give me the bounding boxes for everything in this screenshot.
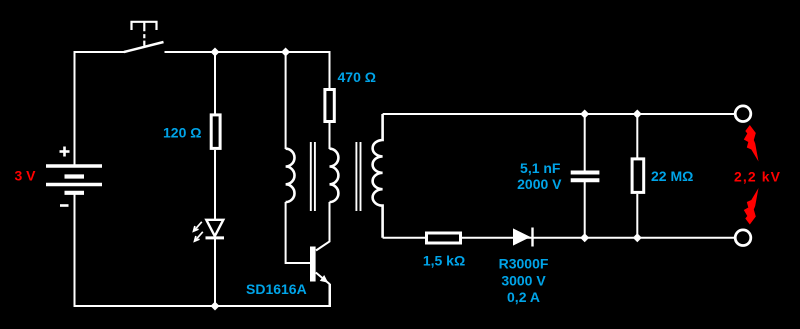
pushbutton plunger dashed link: [143, 22, 145, 47]
svg-text:3 V: 3 V: [14, 167, 36, 183]
transformer winding L2 primary: [330, 149, 339, 202]
wire 22M bottom lead: [636, 194, 638, 238]
spark bolt top: [744, 125, 759, 162]
wire top node to resistor R_120: [214, 52, 216, 114]
wire top node to winding L1: [285, 52, 287, 149]
svg-text:120 Ω: 120 Ω: [163, 124, 201, 140]
wire switch to corner above 470: [165, 52, 330, 89]
battery plus sign: [60, 147, 70, 157]
svg-text:3000 V: 3000 V: [501, 272, 546, 288]
node junction top at 120 ohm branch: [211, 48, 220, 57]
transformer winding L3 secondary: [373, 114, 383, 238]
wire battery plus to switch: [75, 52, 126, 166]
transistor Q1 emitter arrow: [320, 275, 328, 283]
node junction top at coil1 branch: [281, 48, 290, 57]
svg-text:2,2 kV: 2,2 kV: [734, 169, 781, 185]
svg-text:22 MΩ: 22 MΩ: [651, 168, 693, 184]
wire 22M top lead: [636, 114, 638, 158]
diode D2 cathode bar: [531, 228, 533, 247]
wire L2 to collector: [316, 202, 330, 251]
wire secondary bottom rail: [383, 237, 735, 239]
terminal output bottom: [735, 230, 751, 246]
svg-text:SD1616A: SD1616A: [246, 281, 307, 297]
wire LED to bottom rail: [214, 238, 216, 306]
pushbutton actuator bracket: [132, 22, 157, 30]
svg-text:470 Ω: 470 Ω: [338, 69, 376, 85]
resistor 1,5 kohm: [427, 233, 461, 243]
resistor 120 ohm: [211, 115, 220, 148]
wire secondary top rail: [383, 113, 735, 115]
resistor 470 ohm: [325, 90, 334, 122]
wire cap top lead: [584, 114, 586, 171]
wire L1 to base: [286, 202, 310, 263]
diode D2 triangle: [513, 228, 531, 245]
terminal output top: [735, 106, 751, 122]
transformer core 1: [311, 142, 315, 211]
node bottom at capacitor branch: [580, 233, 589, 242]
node junction bottom at LED branch: [211, 302, 220, 311]
svg-text:2000 V: 2000 V: [517, 176, 562, 192]
transformer winding L1 feedback: [286, 149, 295, 202]
capacitor C1 plates: [571, 173, 600, 181]
transistor Q1 emitter: [316, 273, 330, 307]
LED D1 cathode bar: [206, 236, 225, 239]
svg-text:5,1 nF: 5,1 nF: [520, 160, 561, 176]
svg-text:1,5 kΩ: 1,5 kΩ: [423, 252, 465, 268]
LED emission arrow 1: [194, 222, 202, 231]
LED emission arrow 2: [195, 232, 203, 241]
wire resistor to LED: [214, 150, 216, 220]
LED D1 triangle: [206, 220, 223, 236]
transformer core 2: [356, 142, 360, 211]
resistor 22 Mohm: [632, 159, 644, 193]
node top at capacitor branch: [580, 110, 589, 119]
wire battery minus to bottom rail: [75, 194, 331, 306]
battery minus sign: [60, 204, 69, 207]
spark bolt bottom: [744, 188, 759, 225]
svg-text:0,2 A: 0,2 A: [507, 289, 540, 305]
wire cap bottom lead: [584, 182, 586, 238]
node bottom at 22M branch: [633, 233, 642, 242]
wire 470 to winding L2: [329, 123, 331, 149]
node top at 22M branch: [633, 110, 642, 119]
transistor Q1 base bar: [310, 247, 316, 282]
svg-text:R3000F: R3000F: [499, 256, 549, 272]
battery BT1 plates: [46, 166, 102, 193]
switch S1 lever: [124, 42, 164, 52]
